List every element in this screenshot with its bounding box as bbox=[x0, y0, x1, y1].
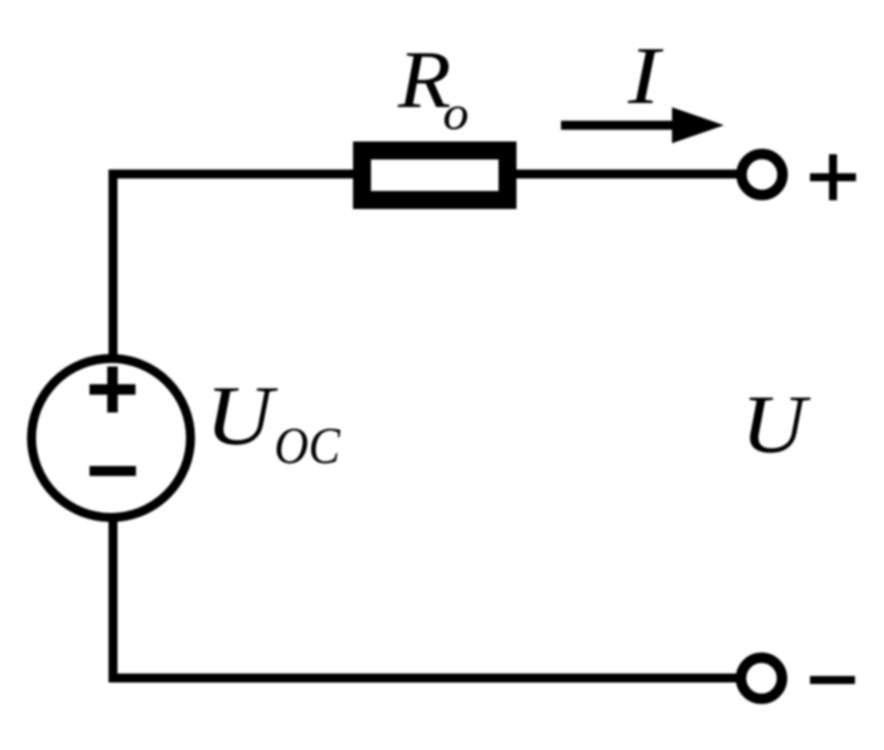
wire: top horizontal from resistor to + terminal bbox=[516, 170, 738, 179]
label U (terminal voltage) bbox=[741, 378, 811, 470]
wire: left vertical from top corner down to source top bbox=[109, 170, 118, 359]
resistor Ro bbox=[362, 151, 508, 201]
node: - output terminal bbox=[741, 658, 782, 699]
wire: left vertical from source bottom to bottom corner bbox=[109, 518, 118, 683]
node: + output terminal bbox=[742, 154, 783, 195]
label Ro bbox=[397, 34, 469, 140]
svg-text:U: U bbox=[205, 369, 278, 463]
current arrow I bbox=[561, 107, 724, 143]
label I bbox=[627, 30, 664, 121]
wire: top horizontal from left corner to resistor bbox=[109, 170, 359, 179]
svg-text:U: U bbox=[741, 378, 811, 470]
svg-text:I: I bbox=[627, 30, 664, 121]
voltage source U_OC bbox=[32, 359, 191, 518]
polarity plus at output bbox=[810, 154, 856, 200]
polarity minus at output bbox=[810, 676, 855, 684]
svg-text:OC: OC bbox=[274, 418, 341, 475]
svg-text:o: o bbox=[443, 87, 469, 140]
label U_OC bbox=[205, 369, 341, 475]
wire: bottom horizontal from corner to - terminal bbox=[109, 674, 738, 683]
